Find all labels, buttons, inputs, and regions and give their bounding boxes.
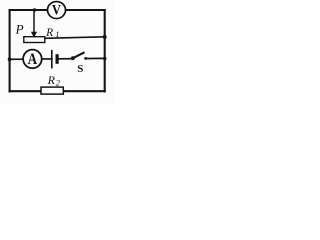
resistor R2 body — [41, 87, 63, 94]
node: left rail / battery row junction — [8, 58, 12, 62]
rheostat slider arrow stem — [33, 10, 35, 33]
wire: left side of loop — [9, 9, 11, 93]
wire: top side of loop — [9, 9, 106, 11]
rheostat R1 body — [24, 37, 45, 43]
battery gap mask — [53, 54, 56, 65]
svg-text:P: P — [15, 22, 24, 37]
svg-text:1: 1 — [55, 29, 59, 39]
voltmeter V — [48, 2, 66, 19]
switch S left contact — [71, 56, 75, 60]
rheostat slider arrowhead — [31, 32, 37, 38]
svg-text:A: A — [28, 51, 38, 68]
svg-text:2: 2 — [56, 77, 61, 87]
svg-text:R: R — [47, 73, 56, 87]
switch gap mask — [74, 57, 85, 62]
battery cell short thick plate — [55, 54, 58, 64]
wire: middle battery row — [10, 57, 105, 60]
node: R1 wire / right rail junction — [103, 35, 107, 39]
wire: bottom side of loop — [9, 90, 106, 92]
wire: right side of loop — [104, 9, 106, 93]
svg-text:S: S — [77, 63, 83, 75]
ammeter A — [23, 50, 42, 69]
node: switch row / right rail junction — [103, 57, 107, 61]
node: slider tap junction on top wire — [33, 8, 36, 11]
svg-text:R: R — [45, 27, 53, 39]
svg-text:V: V — [52, 2, 61, 18]
switch S lever — [73, 52, 85, 58]
battery cell long plate — [51, 50, 53, 69]
wire: R1 output to right rail — [45, 37, 105, 39]
switch S right contact — [84, 57, 87, 60]
